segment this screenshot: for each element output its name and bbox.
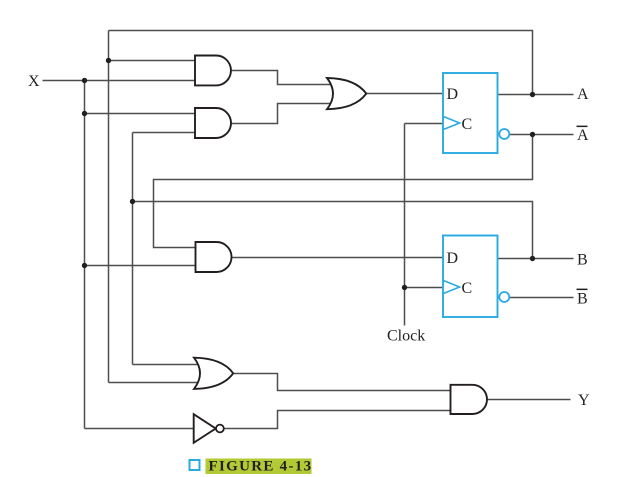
- node Bbar overline: [577, 289, 588, 291]
- figure caption highlight: [206, 459, 312, 475]
- svg-text:C: C: [462, 280, 473, 297]
- and-gate G1: [195, 56, 231, 86]
- wire OR G5 output to AND G7 input 1: [234, 374, 453, 391]
- wire Bbar output: [509, 297, 574, 299]
- svg-text:A: A: [577, 86, 589, 103]
- wire B output: [498, 258, 574, 260]
- wire A feedback top run: [109, 31, 533, 95]
- wire X to AND G2 input 1: [85, 113, 197, 115]
- wire A feedback vertical bus: [108, 31, 110, 383]
- junction dot B output: [530, 256, 535, 261]
- and-gate G4: [196, 242, 232, 272]
- FF2 clock triangle: [444, 281, 460, 294]
- or-gate G3: [327, 78, 366, 109]
- node Abar overline: [577, 126, 588, 128]
- svg-text:X: X: [28, 73, 40, 90]
- junction dot B feedback: [130, 199, 135, 204]
- FF1 output bubble: [499, 129, 509, 139]
- svg-text:Clock: Clock: [387, 328, 425, 345]
- wire inverter G6 output to AND G7 input 2: [224, 411, 453, 429]
- wire X vertical bus: [84, 81, 86, 429]
- wire Abar output: [509, 134, 574, 136]
- and-gate G2: [195, 108, 231, 138]
- junction dot Abar output: [530, 132, 535, 137]
- wire OR G3 output to FF1 D: [367, 93, 444, 95]
- svg-text:C: C: [462, 116, 473, 133]
- inverter G6 bubble: [216, 425, 224, 433]
- svg-text:B: B: [577, 291, 588, 308]
- junction dot clock: [402, 285, 407, 290]
- wire AND G2 output to OR G3 input 2: [232, 104, 333, 124]
- wire B to OR G5 input 1: [133, 364, 200, 366]
- svg-text:FIGURE 4-13: FIGURE 4-13: [209, 459, 313, 475]
- and-gate G7: [451, 385, 488, 414]
- svg-text:B: B: [577, 252, 588, 269]
- wire A output: [498, 94, 574, 96]
- d-flip-flop FF2 body: [443, 236, 498, 318]
- wire AND G4 output to FF2 D: [232, 257, 444, 259]
- wire A to OR G5 input 2: [109, 382, 199, 384]
- wire B to AND G2 input 2: [133, 132, 197, 134]
- junction dot X to G4: [82, 263, 87, 268]
- junction dot A to G1: [106, 58, 111, 63]
- wire AND G1 output to OR G3 input 1: [232, 71, 333, 85]
- wire X to inverter G6 input: [85, 428, 196, 430]
- svg-text:D: D: [447, 86, 459, 103]
- figure caption square: [190, 460, 200, 470]
- wire X input lead: [43, 80, 197, 82]
- wire clock vertical: [404, 124, 406, 326]
- FF1 clock triangle: [444, 117, 460, 130]
- or-gate G5: [194, 358, 233, 389]
- svg-text:Y: Y: [578, 392, 590, 409]
- wire Y output: [487, 399, 571, 401]
- junction dot X to G2: [82, 111, 87, 116]
- wire X to AND G4 input 2: [85, 265, 197, 267]
- d-flip-flop FF1 body: [443, 73, 498, 153]
- wire Abar feedback to AND G4 input 1: [154, 135, 533, 248]
- FF2 output bubble: [499, 292, 509, 302]
- wire B feedback run: [133, 202, 533, 259]
- wire clock to FF1 C: [405, 123, 444, 125]
- wire B feedback vertical bus: [132, 133, 134, 365]
- wire A to AND G1 input 1: [109, 60, 197, 62]
- inverter G6 triangle: [194, 414, 216, 443]
- wire clock to FF2 C: [405, 287, 444, 289]
- svg-text:D: D: [447, 250, 459, 267]
- svg-text:A: A: [577, 127, 589, 144]
- junction dot A output: [530, 92, 535, 97]
- junction dot X at input: [82, 78, 87, 83]
